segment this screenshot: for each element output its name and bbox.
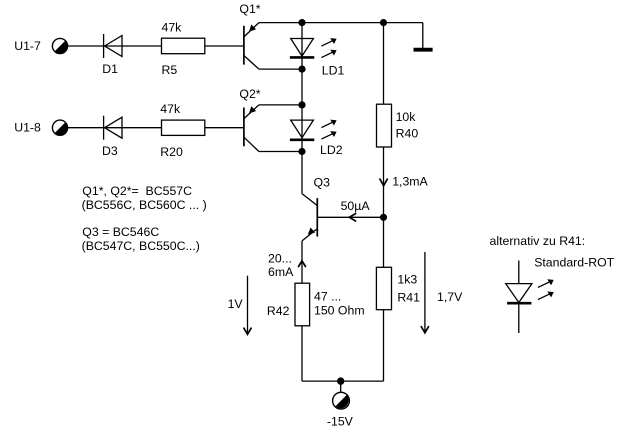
svg-text:47k: 47k [160, 102, 181, 116]
svg-text:Q3 = BC546C: Q3 = BC546C [82, 225, 159, 239]
svg-text:(BC556C, BC560C ... ): (BC556C, BC560C ... ) [82, 198, 207, 212]
svg-text:1,3mA: 1,3mA [392, 175, 428, 189]
svg-text:U1-8: U1-8 [14, 121, 41, 135]
svg-text:D1: D1 [102, 62, 118, 76]
svg-text:R42: R42 [267, 304, 290, 318]
svg-text:50µA: 50µA [341, 199, 371, 213]
svg-text:1,7V: 1,7V [437, 290, 463, 304]
svg-text:20...: 20... [268, 251, 292, 265]
svg-text:U1-7: U1-7 [14, 39, 41, 53]
svg-text:150 Ohm: 150 Ohm [314, 304, 365, 318]
svg-text:Q3: Q3 [314, 176, 331, 190]
svg-text:6mA: 6mA [268, 265, 294, 279]
svg-text:10k: 10k [396, 110, 417, 124]
svg-text:R40: R40 [396, 127, 419, 141]
svg-text:R20: R20 [160, 145, 183, 159]
svg-text:1V: 1V [228, 297, 244, 311]
svg-text:-15V: -15V [327, 415, 354, 429]
svg-text:Standard-ROT: Standard-ROT [534, 256, 614, 270]
svg-text:(BC547C, BC550C...): (BC547C, BC550C...) [82, 239, 200, 253]
svg-text:47 ...: 47 ... [314, 290, 341, 304]
svg-text:R41: R41 [397, 291, 420, 305]
svg-text:D3: D3 [102, 144, 118, 158]
svg-text:Q1*: Q1* [239, 2, 260, 16]
svg-text:1k3: 1k3 [397, 273, 417, 287]
svg-text:R5: R5 [162, 63, 178, 77]
svg-text:Q2*: Q2* [239, 87, 260, 101]
svg-text:alternativ zu R41:: alternativ zu R41: [490, 234, 586, 248]
svg-text:LD2: LD2 [320, 143, 343, 157]
svg-text:Q1*, Q2*= BC557C: Q1*, Q2*= BC557C [82, 184, 192, 198]
svg-text:47k: 47k [162, 21, 183, 35]
svg-text:LD1: LD1 [322, 64, 345, 78]
